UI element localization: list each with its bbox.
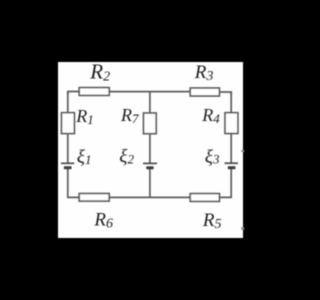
battery E2 positive plate (143, 162, 157, 164)
paper background (58, 62, 243, 238)
resistor R6 (79, 194, 109, 202)
battery E1 negative plate (64, 166, 72, 169)
wire: battery E3 to bottom-right corner (219, 169, 231, 198)
page-edge artifact ticks (241, 150, 244, 230)
wire: battery E2 to bottom node junction (149, 169, 151, 198)
battery E3 negative plate (228, 166, 236, 169)
wire: top-left corner stub to R2 (68, 92, 79, 96)
wire: right branch upper segment (230, 92, 232, 113)
resistor R4 (225, 113, 238, 134)
wire: battery E1 to bottom-left corner (68, 169, 79, 198)
resistor R5 (190, 194, 219, 202)
wire: R3 to top-right corner (219, 92, 231, 95)
battery E2 negative plate (146, 166, 153, 169)
battery E1 positive plate (61, 162, 74, 164)
wire: left branch upper segment (67, 92, 69, 114)
wire: R7 to battery E2 (149, 134, 151, 164)
resistor R1 (62, 113, 75, 134)
wire: R6 to R5 through bottom node (109, 196, 190, 198)
wire: R1 to battery E1 (67, 134, 69, 163)
resistor R2 (79, 88, 109, 96)
battery E3 positive plate (225, 162, 239, 164)
wire: R4 to battery E3 (230, 134, 232, 164)
resistor R7 (144, 113, 157, 134)
resistor R3 (190, 88, 219, 96)
wire: R2 to R3 through top node (109, 91, 190, 93)
wire: middle branch upper segment (149, 91, 151, 113)
